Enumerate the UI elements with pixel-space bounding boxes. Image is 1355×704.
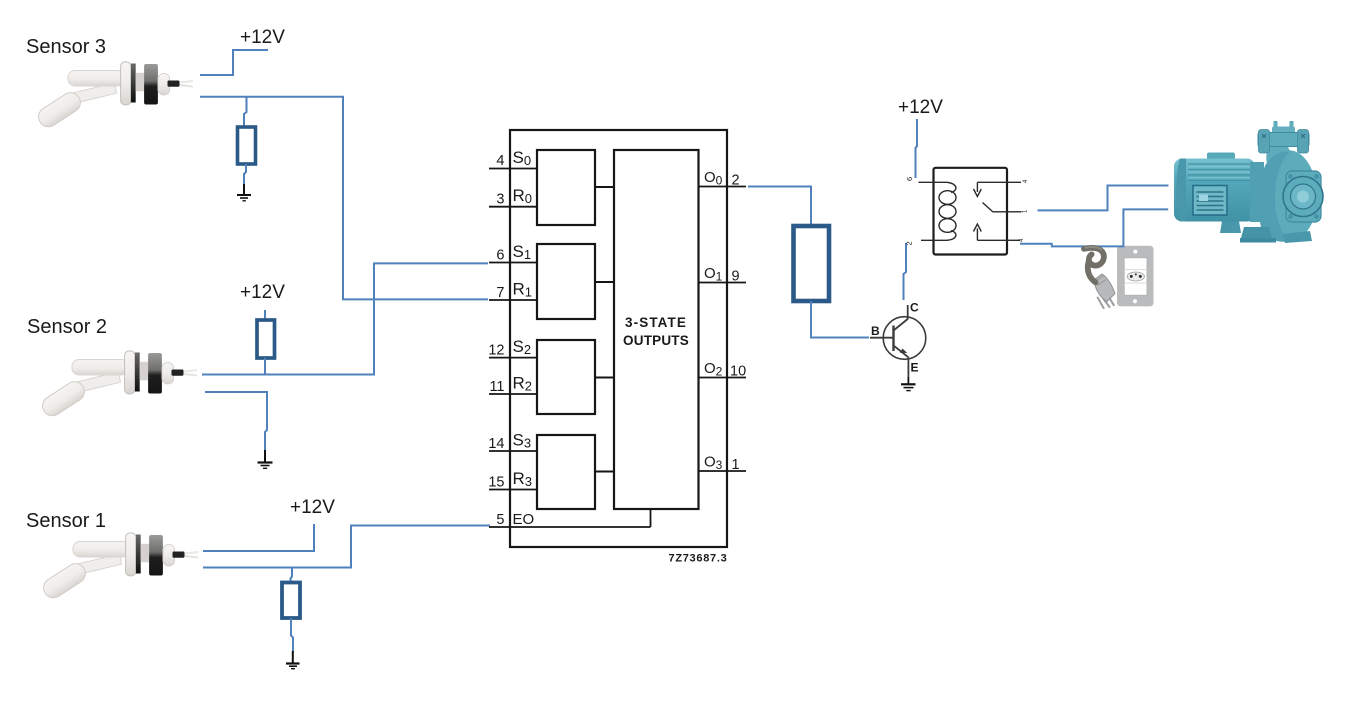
svg-text:R0: R0 bbox=[513, 186, 533, 206]
wire base resistor to transistor base bbox=[811, 301, 869, 338]
wire sensor1 output to IC pin 5 EO bbox=[203, 526, 490, 568]
svg-text:4: 4 bbox=[1023, 179, 1029, 183]
pin 11 R2 bbox=[489, 374, 537, 396]
svg-text:+12V: +12V bbox=[240, 27, 285, 48]
svg-text:Sensor 2: Sensor 2 bbox=[27, 316, 107, 338]
svg-text:4: 4 bbox=[496, 153, 504, 169]
plug cable bbox=[1088, 262, 1096, 283]
wire +12V to resistor (sensor 2) bbox=[264, 310, 266, 320]
wire sensor2 output to IC pin 6 S1 bbox=[202, 263, 488, 374]
pin 2 O0 bbox=[699, 169, 747, 189]
resistor Rb (base resistor) bbox=[794, 226, 830, 301]
svg-text:S0: S0 bbox=[513, 148, 532, 168]
resistor R (sensor 3 pulldown) bbox=[238, 127, 256, 164]
ground symbol (sensor 3) bbox=[237, 184, 251, 201]
svg-text:+12V: +12V bbox=[240, 282, 285, 303]
svg-text:2: 2 bbox=[905, 241, 914, 245]
wire resistor tap sensor3 bbox=[244, 97, 247, 128]
resistor R (sensor 1 pulldown) bbox=[282, 583, 300, 619]
svg-text:15: 15 bbox=[488, 475, 504, 491]
pin 5 EO bbox=[489, 509, 651, 528]
wire latch1 to output block bbox=[595, 186, 614, 188]
svg-text:1: 1 bbox=[732, 457, 740, 473]
svg-text:5: 5 bbox=[496, 512, 504, 528]
svg-text:1: 1 bbox=[1023, 209, 1029, 213]
ground symbol (emitter) bbox=[901, 377, 916, 391]
svg-text:R2: R2 bbox=[513, 374, 533, 394]
svg-text:B: B bbox=[871, 324, 880, 338]
transistor Q1 NPN bbox=[870, 305, 926, 377]
wire resistor to node (sensor 2) bbox=[264, 358, 266, 375]
relay box bbox=[934, 168, 1008, 255]
svg-text:11: 11 bbox=[489, 379, 504, 395]
svg-text:EO: EO bbox=[513, 511, 535, 528]
pump nameplate bbox=[1193, 186, 1227, 216]
svg-text:S3: S3 bbox=[513, 431, 532, 451]
svg-text:14: 14 bbox=[488, 436, 504, 452]
svg-text:7: 7 bbox=[496, 285, 504, 301]
wire +12V to relay coil bbox=[916, 119, 918, 178]
svg-text:S1: S1 bbox=[513, 242, 532, 262]
svg-text:2: 2 bbox=[732, 173, 740, 189]
pump motor body bbox=[1174, 153, 1264, 223]
svg-text:+12V: +12V bbox=[898, 97, 943, 118]
svg-text:O2: O2 bbox=[704, 360, 723, 379]
svg-text:7Z73687.3: 7Z73687.3 bbox=[669, 552, 728, 564]
wire sensor2 to ground bbox=[205, 392, 267, 452]
svg-text:10: 10 bbox=[730, 364, 746, 380]
wire relay coil to collector bbox=[904, 243, 907, 300]
svg-text:O3: O3 bbox=[704, 454, 723, 473]
svg-text:C: C bbox=[910, 301, 919, 315]
svg-text:Sensor 3: Sensor 3 bbox=[26, 36, 106, 58]
resistor R (sensor 2 pullup) bbox=[257, 320, 275, 358]
svg-text:3-STATE: 3-STATE bbox=[625, 315, 687, 330]
wire relay NO to outlet and pump bbox=[1020, 209, 1168, 246]
svg-text:6: 6 bbox=[496, 248, 504, 264]
wire resistor tap sensor1 bbox=[291, 568, 293, 583]
pin 3 R0 bbox=[489, 186, 537, 208]
pin 6 S1 bbox=[489, 242, 537, 264]
float switch sensor 2 (photo) bbox=[39, 351, 197, 420]
pin 12 S2 bbox=[488, 337, 537, 359]
pin 4 S0 bbox=[489, 148, 537, 169]
pump discharge tower bbox=[1258, 121, 1309, 166]
svg-text:12: 12 bbox=[488, 343, 504, 359]
svg-text:O0: O0 bbox=[704, 169, 723, 188]
pin 15 R3 bbox=[488, 469, 537, 491]
wire latch4 to output block bbox=[595, 471, 614, 473]
latch cell 3 bbox=[537, 340, 595, 414]
latch cell 2 bbox=[537, 244, 595, 319]
pump feet bbox=[1240, 227, 1273, 242]
svg-text:R1: R1 bbox=[513, 280, 533, 300]
wire sensor3 to +12V bbox=[200, 50, 268, 75]
svg-text:OUTPUTS: OUTPUTS bbox=[623, 333, 689, 348]
pin 14 S3 bbox=[488, 431, 537, 453]
float switch sensor 1 (photo) bbox=[40, 533, 198, 602]
svg-text:4: 4 bbox=[1019, 238, 1025, 242]
relay switch contacts bbox=[974, 182, 1022, 240]
plug body bbox=[1094, 274, 1115, 302]
wire sensor3 output to IC pin 7 R1 bbox=[200, 97, 488, 300]
wire relay common to pump bbox=[1038, 186, 1169, 211]
svg-text:+12V: +12V bbox=[290, 497, 335, 518]
wire O0 to base resistor bbox=[748, 187, 811, 227]
wire resistor to ground (sensor 3) bbox=[244, 164, 246, 184]
svg-text:9: 9 bbox=[732, 269, 740, 285]
svg-text:R3: R3 bbox=[513, 469, 533, 489]
pin 1 O3 bbox=[699, 454, 747, 474]
svg-text:3: 3 bbox=[496, 192, 504, 208]
latch cell 4 bbox=[537, 435, 595, 509]
pump casing volute bbox=[1259, 150, 1323, 241]
wire latch3 to output block bbox=[595, 377, 614, 379]
ground symbol (sensor 2) bbox=[258, 450, 273, 468]
svg-text:E: E bbox=[911, 361, 919, 375]
wire latch2 to output block bbox=[595, 281, 614, 283]
IC outer box bbox=[510, 130, 727, 547]
svg-text:O1: O1 bbox=[704, 265, 723, 284]
svg-text:S2: S2 bbox=[513, 337, 532, 357]
pin 7 R1 bbox=[489, 280, 537, 301]
pin 9 O1 bbox=[699, 265, 747, 285]
ground symbol (sensor 1) bbox=[286, 651, 300, 669]
wire sensor1 to +12V bbox=[203, 524, 314, 551]
pin 10 O2 bbox=[699, 360, 747, 380]
plug prongs bbox=[1097, 295, 1114, 309]
wire resistor to ground (sensor 1) bbox=[291, 618, 293, 652]
3-state output block bbox=[614, 150, 699, 509]
latch cell 1 bbox=[537, 150, 595, 225]
relay coil bbox=[919, 182, 957, 240]
float switch sensor 3 (photo) bbox=[35, 62, 193, 131]
svg-text:6: 6 bbox=[905, 177, 914, 181]
svg-text:Sensor 1: Sensor 1 bbox=[26, 510, 106, 532]
